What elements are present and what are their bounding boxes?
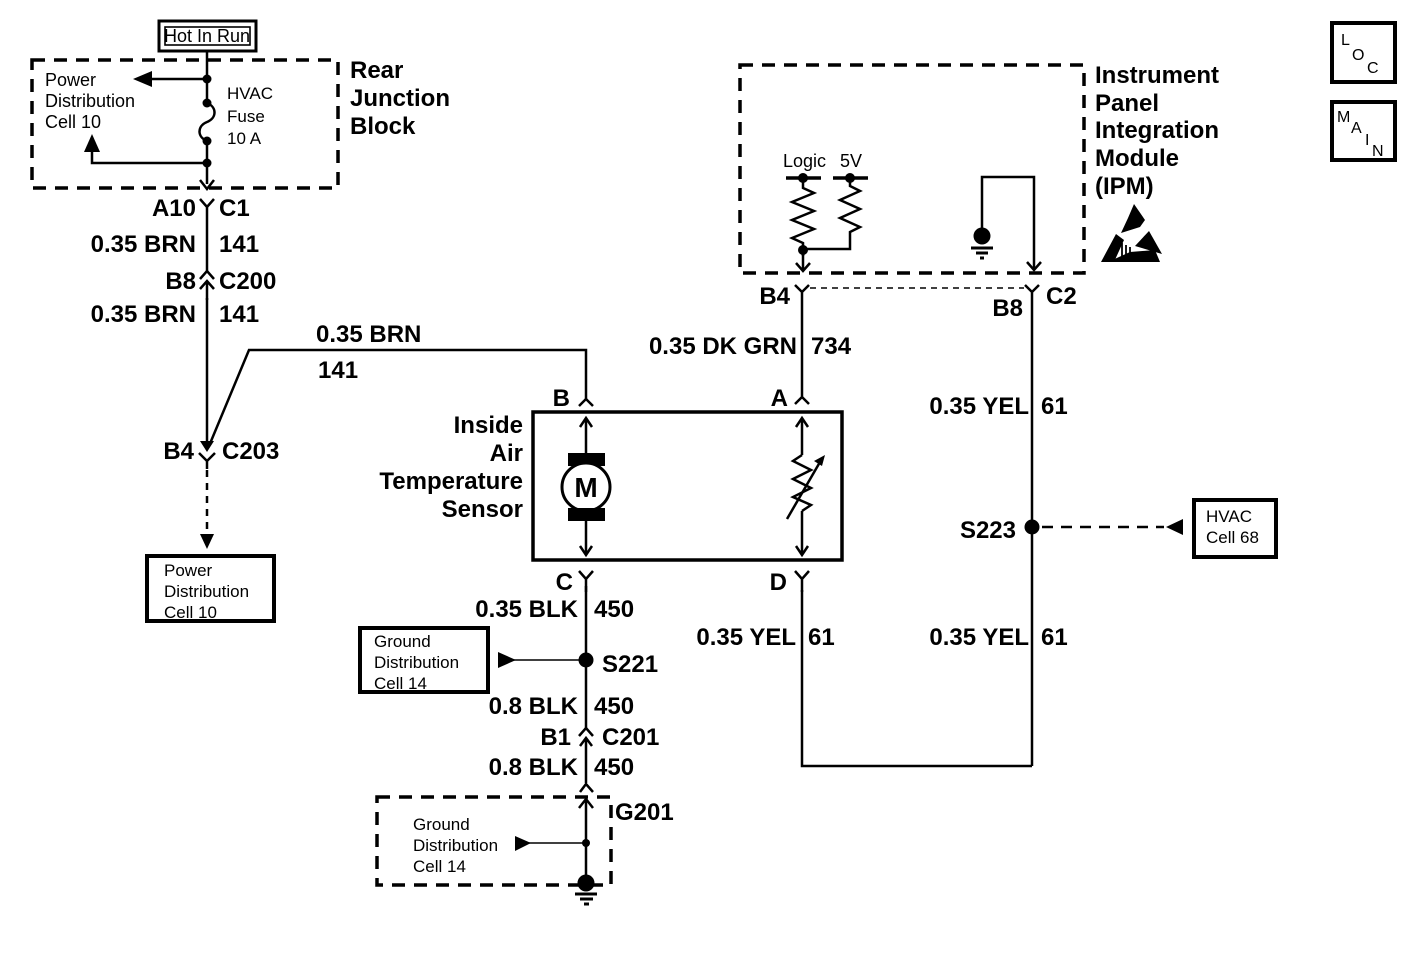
svg-text:Hot In Run: Hot In Run — [164, 26, 250, 46]
wire from ground to C2 output — [982, 177, 1034, 268]
svg-text:0.35 YEL: 0.35 YEL — [929, 624, 1029, 651]
svg-text:M: M — [1337, 109, 1350, 126]
svg-text:Sensor: Sensor — [442, 496, 523, 523]
svg-text:734: 734 — [811, 333, 852, 360]
wire 0.35 BRN 141 (lower) — [206, 298, 209, 444]
svg-text:HVAC: HVAC — [227, 84, 273, 103]
svg-text:0.35 BRN: 0.35 BRN — [316, 321, 421, 348]
svg-text:B: B — [553, 385, 570, 412]
svg-text:D: D — [770, 569, 787, 596]
branch wire 0.35 BRN 141 to sensor — [209, 321, 586, 446]
svg-text:S221: S221 — [602, 651, 658, 678]
connector C200 pin B8 (chevron pair) — [200, 271, 214, 300]
Rear Junction Block dashed box — [32, 60, 338, 188]
svg-text:Cell 14: Cell 14 — [374, 674, 427, 693]
svg-text:I: I — [1365, 132, 1369, 149]
connector C203 pin B4 (arrow + Y) — [199, 441, 215, 469]
svg-text:0.35 BLK: 0.35 BLK — [475, 596, 578, 623]
IPM internal ground — [971, 228, 993, 259]
svg-text:Junction: Junction — [350, 85, 450, 112]
svg-text:0.35 YEL: 0.35 YEL — [696, 624, 796, 651]
Rear Junction Block label — [350, 57, 450, 140]
fuse F: HVAC Fuse 10 A — [200, 99, 215, 146]
motor M (aspirator) — [562, 418, 610, 555]
svg-text:0.35 YEL: 0.35 YEL — [929, 393, 1029, 420]
pin D connector (below sensor) — [795, 571, 809, 592]
svg-text:Power: Power — [164, 561, 213, 580]
svg-text:Instrument: Instrument — [1095, 62, 1219, 89]
5V terminal — [833, 151, 868, 183]
HVAC Fuse 10 A label — [227, 84, 273, 148]
svg-text:HVAC: HVAC — [1206, 507, 1252, 526]
dashed wire to Power Distribution Cell 10 — [206, 470, 209, 533]
svg-text:61: 61 — [1041, 393, 1068, 420]
svg-text:C2: C2 — [1046, 283, 1077, 310]
wire 0.8 BLK 450 (upper) — [585, 660, 588, 728]
svg-text:(IPM): (IPM) — [1095, 173, 1154, 200]
Power Distribution Cell 10 label (in Rear Junction Block) — [45, 70, 135, 132]
svg-text:B4: B4 — [759, 283, 790, 310]
svg-text:Power: Power — [45, 70, 96, 90]
svg-text:0.8 BLK: 0.8 BLK — [489, 754, 579, 781]
svg-text:C201: C201 — [602, 724, 659, 751]
wire from Hot In Run into junction block — [206, 51, 209, 101]
svg-text:C1: C1 — [219, 195, 250, 222]
svg-text:Ground: Ground — [413, 815, 470, 834]
svg-text:10 A: 10 A — [227, 129, 262, 148]
Instrument Panel Integration Module dashed box — [740, 65, 1084, 273]
svg-text:B1: B1 — [540, 724, 571, 751]
wire to up arrow (lower feed) — [92, 148, 207, 163]
node: resistor junction — [798, 245, 808, 255]
connector C201 pin B1 (chevron pair) — [579, 728, 593, 783]
wire to left arrow — [149, 78, 207, 81]
node: feed junction — [203, 75, 212, 84]
node on ground wire — [582, 839, 590, 847]
arrow toward S223 from HVAC box — [1166, 519, 1183, 535]
svg-text:Rear: Rear — [350, 57, 403, 84]
splice S223 — [1025, 520, 1040, 535]
dashed connector face line — [810, 287, 1024, 289]
ground G201 symbol — [575, 875, 597, 905]
svg-text:Distribution: Distribution — [374, 653, 459, 672]
svg-text:N: N — [1372, 143, 1384, 160]
svg-text:450: 450 — [594, 754, 634, 781]
Ground Distribution Cell 14 dashed box — [377, 797, 611, 885]
svg-text:61: 61 — [808, 624, 835, 651]
IPM label — [1095, 62, 1219, 200]
node: lower junction — [203, 159, 212, 168]
connector C2 pin B8 (Y symbol) — [1025, 285, 1039, 301]
pin C connector (below sensor) — [579, 571, 593, 592]
svg-text:Integration: Integration — [1095, 117, 1219, 144]
svg-text:M: M — [574, 472, 597, 503]
svg-text:S223: S223 — [960, 517, 1016, 544]
MAIN reference box — [1332, 102, 1395, 160]
dashed wire to HVAC Cell 68 — [1042, 526, 1164, 529]
connector chevron at G201 — [580, 784, 593, 792]
arrow out of IPM at B4 — [796, 250, 810, 271]
pin B connector (into sensor) — [579, 399, 593, 406]
connector C2 pin B4 (Y symbol) — [795, 285, 809, 301]
svg-text:A: A — [1351, 120, 1362, 137]
svg-text:Cell 68: Cell 68 — [1206, 528, 1259, 547]
svg-text:5V: 5V — [840, 151, 862, 171]
svg-text:C203: C203 — [222, 438, 279, 465]
svg-text:A: A — [771, 385, 788, 412]
svg-text:Cell 10: Cell 10 — [164, 603, 217, 622]
svg-text:0.35 BRN: 0.35 BRN — [91, 301, 196, 328]
svg-text:Air: Air — [490, 440, 523, 467]
svg-text:Ground: Ground — [374, 632, 431, 651]
wire below fuse — [206, 141, 209, 184]
HVAC Cell 68 box — [1194, 500, 1276, 557]
splice S221 — [579, 653, 594, 668]
svg-text:Cell 14: Cell 14 — [413, 857, 466, 876]
arrow out of IPM at C2 — [1027, 262, 1041, 270]
svg-text:Inside: Inside — [454, 412, 523, 439]
Hot In Run label box — [159, 21, 256, 51]
svg-text:B4: B4 — [163, 438, 194, 465]
svg-text:C: C — [1367, 60, 1379, 77]
svg-text:Module: Module — [1095, 145, 1179, 172]
svg-text:141: 141 — [318, 357, 358, 384]
svg-text:450: 450 — [594, 693, 634, 720]
svg-text:0.35 BRN: 0.35 BRN — [91, 231, 196, 258]
svg-text:Block: Block — [350, 113, 416, 140]
svg-text:B8: B8 — [992, 295, 1023, 322]
svg-text:O: O — [1352, 47, 1364, 64]
arrow from dashed ground box — [515, 836, 531, 851]
Power Distribution Cell 10 box — [147, 556, 274, 622]
pin A connector (into sensor) — [795, 301, 809, 404]
svg-text:141: 141 — [219, 301, 259, 328]
wire 0.35 BLK 450 — [585, 586, 588, 656]
svg-text:0.35 DK GRN: 0.35 DK GRN — [649, 333, 797, 360]
resistor (Logic pull-up) — [792, 178, 814, 256]
thermistor (variable resistor) — [787, 418, 825, 555]
svg-text:Panel: Panel — [1095, 90, 1159, 117]
svg-text:G201: G201 — [615, 799, 674, 826]
arrow from ground box to S221 — [498, 652, 516, 668]
Logic terminal — [783, 151, 826, 183]
wire 0.35 YEL 61 from pin D — [802, 590, 1032, 766]
ESD sensitive device symbol — [1101, 204, 1162, 262]
svg-text:450: 450 — [594, 596, 634, 623]
arrow into ground box / wire to ground — [579, 799, 593, 876]
wire 0.35 BRN 141 (upper) — [206, 216, 209, 271]
svg-text:0.8 BLK: 0.8 BLK — [489, 693, 579, 720]
svg-text:Distribution: Distribution — [413, 836, 498, 855]
svg-text:B8: B8 — [165, 268, 196, 295]
Ground Distribution Cell 14 box (solid) — [360, 628, 488, 693]
svg-text:Cell 10: Cell 10 — [45, 112, 101, 132]
resistor (5V pull-up) — [803, 178, 860, 249]
Inside Air Temperature Sensor box — [533, 412, 842, 560]
svg-text:C: C — [556, 569, 573, 596]
LOC reference box — [1332, 23, 1395, 82]
svg-text:Distribution: Distribution — [164, 582, 249, 601]
svg-text:C200: C200 — [219, 268, 276, 295]
svg-text:Temperature: Temperature — [379, 468, 523, 495]
svg-text:L: L — [1341, 32, 1350, 49]
arrow up to Power Distribution Cell 10 — [84, 134, 100, 152]
arrow out of junction block (down) — [200, 180, 214, 189]
svg-text:Distribution: Distribution — [45, 91, 135, 111]
Inside Air Temperature Sensor label — [379, 412, 523, 523]
svg-text:A10: A10 — [152, 195, 196, 222]
svg-text:141: 141 — [219, 231, 259, 258]
wire 0.35 YEL 61 (from C2) — [1031, 301, 1034, 766]
connector C1 pin A10 (Y symbol) — [200, 199, 214, 216]
arrow into Power Distribution Cell 10 box — [200, 534, 214, 549]
svg-text:Logic: Logic — [783, 151, 826, 171]
svg-text:Fuse: Fuse — [227, 107, 265, 126]
arrow to Power Distribution Cell 10 (left) — [133, 71, 152, 87]
svg-text:61: 61 — [1041, 624, 1068, 651]
